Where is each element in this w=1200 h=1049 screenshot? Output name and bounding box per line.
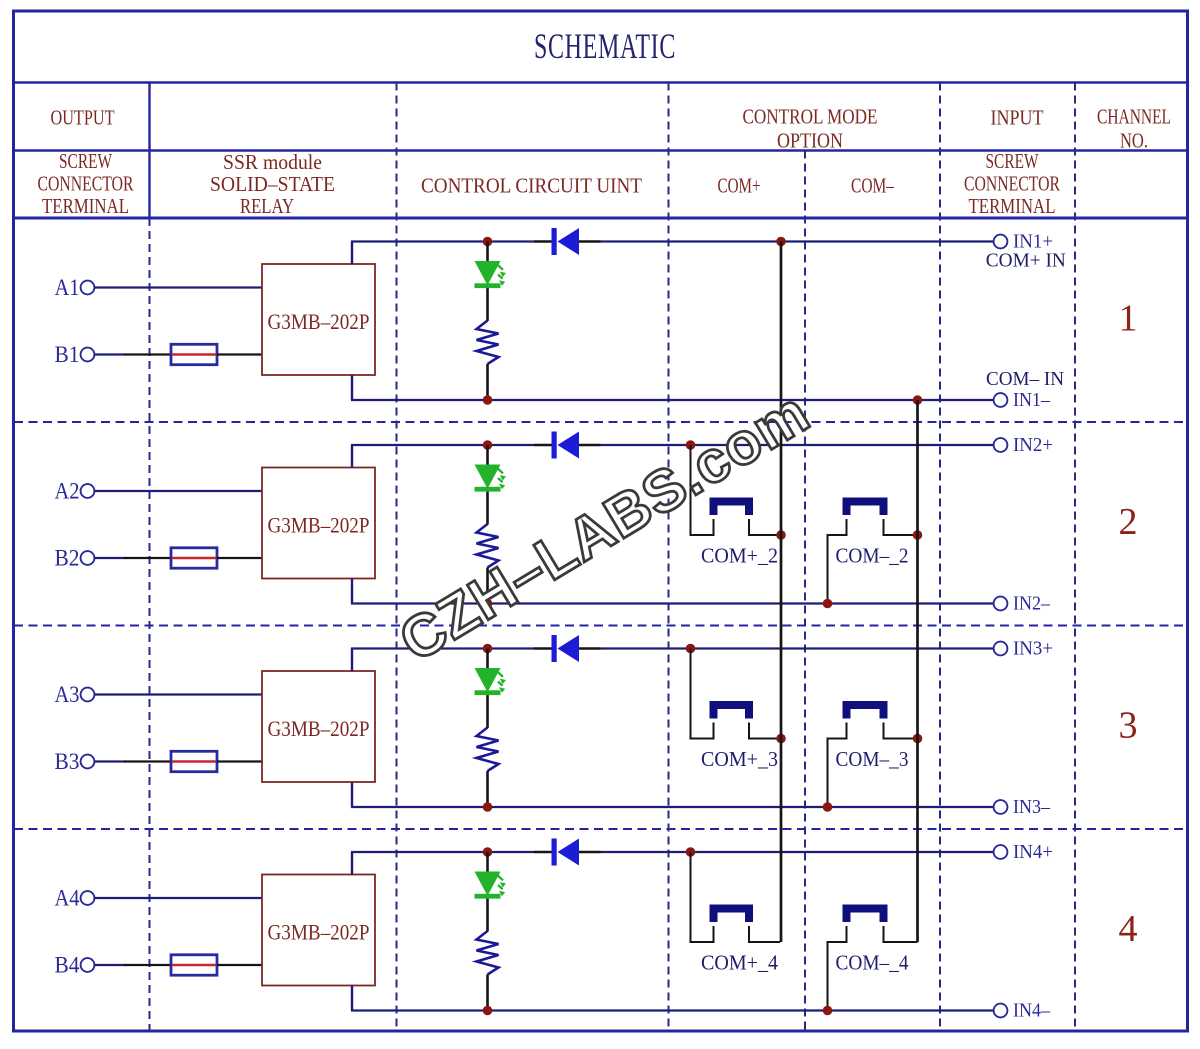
svg-text:3: 3: [1119, 705, 1138, 747]
wire relay U3 bottom stub: [351, 782, 353, 807]
junction dot COM+ bus ch2: [776, 530, 786, 540]
wire B4 to fuse: [94, 964, 125, 966]
wire rail to LED3: [486, 649, 489, 669]
wire LED1 to resistor R1: [486, 288, 489, 321]
wire A1 to relay: [94, 286, 262, 288]
LED D2 emission arrows: [498, 469, 506, 490]
wire fuse to relay B2: [217, 557, 262, 559]
column dashed line x=396.5: [396, 83, 398, 1032]
junction dot COM- bus ch3: [913, 734, 923, 744]
wire diode D3 cathode lead: [579, 647, 601, 649]
junction dot COM- bus start: [913, 395, 923, 405]
wire COM-_3 jumper left leg: [828, 723, 847, 808]
svg-text:OUTPUT: OUTPUT: [51, 106, 115, 130]
channel separator dashed line y=625.5: [14, 625, 1187, 627]
terminal IN4+: [994, 845, 1008, 859]
wire diode D3 anode lead: [534, 647, 552, 649]
diode D3: [552, 635, 557, 662]
wire relay U1 top stub: [351, 242, 353, 265]
relay module U1 G3MB-202P box: [262, 264, 375, 375]
svg-text:COM+_4: COM+_4: [701, 951, 778, 975]
terminal IN3+: [994, 642, 1008, 656]
wire resistor R1 to bottom rail: [486, 364, 489, 400]
LED D1 (green): [475, 261, 501, 285]
wire A3 to relay: [94, 693, 262, 695]
wire fuse to relay B3: [217, 760, 262, 762]
junction dot top rail ch3: [483, 644, 493, 654]
wire top rail IN1+ left: [351, 240, 534, 242]
svg-text:4: 4: [1119, 908, 1138, 950]
svg-text:TERMINAL: TERMINAL: [969, 194, 1056, 218]
junction dot IN4- jumper tap: [823, 1006, 833, 1016]
wire relay U1 bottom stub: [351, 375, 353, 400]
junction dot top rail ch1: [483, 237, 493, 247]
svg-text:A3: A3: [55, 682, 80, 707]
junction dot COM+ bus ch3: [776, 734, 786, 744]
wire top rail IN2+ left: [351, 444, 534, 446]
svg-text:COM– IN: COM– IN: [986, 368, 1064, 390]
wire A2 to relay: [94, 490, 262, 492]
svg-text:B3: B3: [55, 749, 80, 774]
relay module U2 G3MB-202P box: [262, 468, 375, 579]
terminal A4: [81, 891, 95, 905]
svg-text:INPUT: INPUT: [991, 106, 1044, 130]
column line x=150 solid header part: [148, 83, 150, 219]
svg-text:SCHEMATIC: SCHEMATIC: [534, 26, 676, 66]
LED D4 (green): [475, 872, 501, 896]
svg-text:G3MB–202P: G3MB–202P: [268, 716, 370, 741]
junction dot COM+ bus start: [776, 237, 786, 247]
wire B1 to fuse: [94, 353, 125, 355]
svg-text:CONNECTOR: CONNECTOR: [38, 172, 134, 196]
wire bottom rail IN4-: [351, 1009, 994, 1011]
svg-text:IN2–: IN2–: [1013, 593, 1051, 615]
header bottom line: [14, 217, 1188, 220]
wire relay U3 top stub: [351, 649, 353, 672]
wire top rail IN1+ right: [601, 240, 995, 242]
svg-text:RELAY: RELAY: [240, 194, 294, 218]
wire COM+_2 jumper right leg: [749, 519, 780, 535]
LED D4 emission arrows: [498, 876, 506, 897]
wire resistor R3 to bottom rail: [486, 771, 489, 807]
wire rail to LED1: [486, 242, 489, 262]
jumper COM-_3: [847, 705, 884, 719]
wire resistor R2 to bottom rail: [486, 568, 489, 604]
svg-text:IN3–: IN3–: [1013, 796, 1051, 818]
wire top rail IN2+ right: [601, 444, 995, 446]
junction dot IN2- jumper tap: [823, 599, 833, 609]
svg-text:IN3+: IN3+: [1013, 638, 1053, 660]
wire COM-_4 jumper right leg: [884, 926, 918, 942]
svg-text:CONTROL MODE: CONTROL MODE: [743, 105, 878, 129]
wire LED3 to resistor R3: [486, 695, 489, 728]
svg-text:SSR module: SSR module: [223, 150, 322, 174]
wire COM+_3 jumper left leg: [691, 649, 714, 739]
svg-text:A2: A2: [55, 479, 80, 504]
junction dot IN2+ jumper tap: [686, 440, 696, 450]
svg-text:COM+_3: COM+_3: [701, 747, 778, 771]
fuse F1: [171, 344, 217, 364]
svg-text:COM+_2: COM+_2: [701, 544, 778, 568]
svg-text:NO.: NO.: [1120, 129, 1148, 153]
wire COM-_3 jumper right leg: [884, 723, 918, 739]
LED D2 (green): [475, 465, 501, 489]
wire fuse to relay B1: [217, 353, 262, 355]
svg-text:IN4+: IN4+: [1013, 841, 1053, 863]
svg-text:IN2+: IN2+: [1013, 434, 1053, 456]
diode D1: [552, 228, 557, 255]
junction dot bottom rail ch4: [483, 1006, 493, 1016]
LED D1 emission arrows: [498, 265, 506, 286]
svg-text:1: 1: [1119, 298, 1138, 340]
svg-text:COM–_2: COM–_2: [836, 544, 909, 568]
jumper COM-_2: [847, 502, 884, 516]
wire COM- bus vertical: [916, 400, 919, 942]
terminal IN1+: [994, 235, 1008, 249]
svg-text:G3MB–202P: G3MB–202P: [268, 513, 370, 538]
wire relay U4 bottom stub: [351, 986, 353, 1011]
channel separator dashed line y=829: [14, 828, 1187, 830]
fuse F4: [171, 955, 217, 975]
title row divider line: [14, 81, 1188, 84]
wire relay U4 top stub: [351, 852, 353, 875]
terminal IN1-: [994, 393, 1008, 407]
wire resistor R4 to bottom rail: [486, 975, 489, 1011]
diode D4: [552, 839, 557, 866]
wire relay U2 bottom stub: [351, 579, 353, 604]
wire B3 to fuse: [94, 760, 125, 762]
terminal B1: [81, 348, 95, 362]
junction dot IN3- jumper tap: [823, 802, 833, 812]
svg-text:COM+ IN: COM+ IN: [986, 250, 1066, 272]
resistor R2: [477, 524, 499, 568]
fuse F2: [171, 548, 217, 568]
LED D3 emission arrows: [498, 672, 506, 693]
svg-text:2: 2: [1119, 501, 1138, 543]
column dashed line x=1075: [1074, 83, 1076, 1032]
header row divider line: [14, 149, 1188, 152]
wire fuse to relay B4: [217, 964, 262, 966]
svg-text:COM–_3: COM–_3: [836, 747, 909, 771]
svg-text:SCREW: SCREW: [986, 149, 1039, 173]
terminal IN4-: [994, 1004, 1008, 1018]
terminal A2: [81, 484, 95, 498]
wire bottom rail IN3-: [351, 806, 994, 808]
wire diode D4 cathode lead: [579, 851, 601, 853]
terminal B2: [81, 551, 95, 565]
wire top rail IN3+ left: [351, 647, 534, 649]
wire COM+_4 jumper left leg: [691, 852, 714, 942]
svg-text:CONNECTOR: CONNECTOR: [964, 172, 1060, 196]
terminal A1: [81, 281, 95, 295]
LED D3 (green): [475, 668, 501, 692]
terminal IN3-: [994, 800, 1008, 814]
wire rail to LED4: [486, 852, 489, 872]
svg-text:A1: A1: [55, 275, 80, 300]
channel separator dashed line y=422: [14, 421, 1187, 423]
column dashed line x=805: [804, 151, 806, 1032]
svg-text:B1: B1: [55, 342, 80, 367]
wire A4 to relay: [94, 897, 262, 899]
svg-text:G3MB–202P: G3MB–202P: [268, 309, 370, 334]
jumper COM+_4: [714, 909, 750, 923]
terminal B4: [81, 958, 95, 972]
wire relay U2 top stub: [351, 445, 353, 468]
svg-text:COM–_4: COM–_4: [836, 951, 909, 975]
wire diode D1 cathode lead: [579, 240, 601, 242]
wire bottom rail IN1-: [351, 399, 994, 401]
junction dot top rail ch2: [483, 440, 493, 450]
wire top rail IN4+ right: [601, 851, 995, 853]
wire COM+_2 jumper left leg: [691, 445, 714, 535]
jumper COM-_4: [847, 909, 884, 923]
wire diode D1 anode lead: [534, 240, 552, 242]
terminal A3: [81, 688, 95, 702]
svg-text:A4: A4: [55, 886, 80, 911]
terminal IN2-: [994, 597, 1008, 611]
svg-text:SCREW: SCREW: [59, 149, 112, 173]
svg-text:B4: B4: [55, 953, 80, 978]
wire COM+_4 jumper right leg: [749, 926, 780, 942]
junction dot IN3+ jumper tap: [686, 644, 696, 654]
wire LED2 to resistor R2: [486, 492, 489, 525]
column dashed line x=940: [939, 83, 941, 1032]
wire diode D2 anode lead: [534, 444, 552, 446]
svg-text:CHANNEL: CHANNEL: [1097, 105, 1171, 129]
terminal IN2+: [994, 438, 1008, 452]
wire rail to LED2: [486, 445, 489, 465]
svg-text:TERMINAL: TERMINAL: [42, 194, 129, 218]
svg-text:IN4–: IN4–: [1013, 1000, 1051, 1022]
fuse F3: [171, 751, 217, 771]
column line x=150 dashed: [149, 218, 151, 1031]
junction dot bottom rail ch2: [483, 599, 493, 609]
junction dot top rail ch4: [483, 847, 493, 857]
junction dot IN4+ jumper tap: [686, 847, 696, 857]
svg-text:COM–: COM–: [851, 174, 894, 198]
resistor R3: [477, 728, 499, 772]
jumper COM+_2: [714, 502, 750, 516]
svg-text:G3MB–202P: G3MB–202P: [268, 920, 370, 945]
wire bottom rail IN2-: [351, 602, 994, 604]
terminal B3: [81, 755, 95, 769]
wire B2 to fuse: [94, 557, 125, 559]
relay module U3 G3MB-202P box: [262, 671, 375, 782]
svg-text:COM+: COM+: [718, 174, 761, 198]
wire COM+ bus vertical: [780, 242, 783, 943]
svg-text:B2: B2: [55, 546, 80, 571]
junction dot bottom rail ch3: [483, 802, 493, 812]
junction dot COM- bus ch2: [913, 530, 923, 540]
diode D2: [552, 432, 557, 459]
wire COM+_3 jumper right leg: [749, 723, 780, 739]
resistor R4: [477, 931, 499, 975]
junction dot bottom rail ch1: [483, 395, 493, 405]
wire top rail IN4+ left: [351, 851, 534, 853]
jumper COM+_3: [714, 705, 750, 719]
svg-text:OPTION: OPTION: [777, 129, 843, 153]
wire top rail IN3+ right: [601, 647, 995, 649]
wire COM-_4 jumper left leg: [828, 926, 847, 1011]
wire diode D4 anode lead: [534, 851, 552, 853]
wire LED4 to resistor R4: [486, 899, 489, 932]
wire COM-_2 jumper left leg: [828, 519, 847, 604]
svg-text:SOLID–STATE: SOLID–STATE: [210, 172, 335, 196]
wire diode D2 cathode lead: [579, 444, 601, 446]
column dashed line x=668.5: [668, 83, 670, 1032]
svg-text:CONTROL CIRCUIT UINT: CONTROL CIRCUIT UINT: [421, 174, 642, 198]
resistor R1: [477, 321, 499, 365]
svg-text:IN1–: IN1–: [1013, 389, 1051, 411]
wire COM-_2 jumper right leg: [884, 519, 918, 535]
relay module U4 G3MB-202P box: [262, 875, 375, 986]
